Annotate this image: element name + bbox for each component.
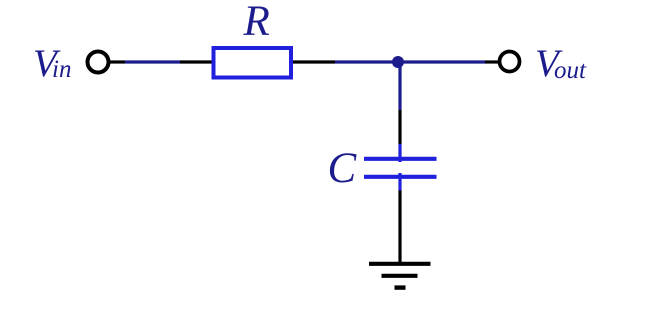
capacitor C bottom plate [364, 175, 437, 179]
wire Vin terminal to resistor (black segment) [110, 60, 125, 63]
node junction [392, 56, 404, 68]
label Vout [535, 42, 587, 85]
svg-text:C: C [328, 145, 358, 192]
resistor R [214, 48, 292, 78]
terminal Vin [88, 52, 109, 73]
label Vin [33, 42, 71, 85]
wire into resistor left (black segment) [180, 60, 212, 63]
wire vertical middle (black segment) [398, 110, 401, 144]
terminal Vout [500, 52, 520, 72]
svg-text:in: in [52, 56, 71, 83]
wire from capacitor bottom plate (blue segment) [398, 173, 401, 191]
wire Vin to resistor (navy segment) [125, 60, 180, 63]
wire capacitor to ground (black segment) [398, 191, 401, 264]
svg-text:R: R [243, 0, 270, 45]
wire node to Vout (navy segment) [398, 60, 485, 63]
wire into Vout terminal (black segment) [485, 60, 499, 63]
capacitor C top plate [364, 157, 437, 161]
wire resistor right (black segment) [293, 60, 335, 63]
wire node down (navy segment) [398, 66, 401, 110]
svg-text:out: out [554, 57, 587, 84]
ground [369, 264, 431, 288]
wire to node (navy segment) [335, 60, 398, 63]
wire to capacitor top plate (blue segment) [398, 144, 401, 162]
